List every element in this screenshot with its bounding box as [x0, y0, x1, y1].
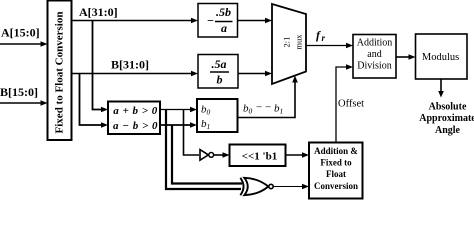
block Modulus: [416, 34, 468, 79]
svg-text:Fixed to: Fixed to: [320, 158, 352, 168]
svg-text:Addition &: Addition &: [314, 146, 358, 156]
svg-text:Modulus: Modulus: [422, 52, 459, 63]
svg-text:2:1: 2:1: [282, 37, 292, 48]
wire input A: [0, 41, 48, 47]
block multiplier .5a/b: [198, 55, 238, 89]
wire mux out fr: [306, 43, 353, 49]
wire comparator out b0: [160, 107, 197, 113]
block Addition and Division: [353, 35, 396, 79]
svg-text:<<1 'b1: <<1 'b1: [242, 151, 277, 163]
svg-text:Float: Float: [326, 169, 346, 179]
block U1 Fixed to Float Conversion: [48, 1, 72, 141]
svg-text:B[15:0]: B[15:0]: [0, 85, 38, 99]
wire not gate to shifter: [214, 152, 230, 158]
svg-text:.5a: .5a: [212, 57, 227, 71]
svg-text:Offset: Offset: [338, 99, 364, 110]
svg-text:.5b: .5b: [216, 5, 231, 19]
svg-text:B[31:0]: B[31:0]: [111, 58, 149, 72]
block shifter <<1'b1: [230, 145, 286, 167]
wire box1 to mux: [238, 18, 273, 24]
wire branch B to comparator: [80, 74, 109, 128]
svg-text:Addition: Addition: [357, 38, 393, 49]
svg-text:and: and: [367, 49, 381, 60]
svg-text:A[15:0]: A[15:0]: [1, 26, 40, 40]
block register b0 b1: [197, 99, 238, 132]
svg-text:Angle: Angle: [435, 125, 461, 136]
mux 2:1: [272, 4, 306, 84]
wire offset: [336, 64, 353, 142]
wire box2 to mux: [238, 71, 272, 77]
wire adddiv to modulus: [396, 54, 416, 60]
svg-text:−: −: [207, 14, 214, 28]
block comparator a+b>0 / a-b>0: [108, 102, 160, 135]
wire xnor to addfix: [274, 184, 310, 190]
svg-text:Approximate: Approximate: [419, 113, 474, 124]
wire drop b1 to xnor upper: [172, 125, 242, 184]
svg-text:mux: mux: [294, 34, 304, 50]
wire comparator out b1: [160, 122, 197, 128]
svg-text:a − b > 0: a − b > 0: [113, 120, 158, 132]
wire mux select: [238, 76, 298, 118]
svg-text:Division: Division: [357, 61, 391, 72]
svg-text:Fixed to Float Conversion: Fixed to Float Conversion: [54, 12, 66, 134]
not gate: [200, 150, 214, 161]
svg-text:Conversion: Conversion: [314, 181, 358, 191]
svg-text:b: b: [217, 73, 223, 87]
block multiplier -.5b/a: [198, 4, 238, 38]
wire shifter to addfix: [286, 152, 310, 158]
wire B[31:0]: [72, 71, 199, 77]
block addfix Addition & Fixed to Float Conversion: [309, 143, 363, 199]
svg-text:a: a: [221, 21, 227, 35]
wire drop b0 to xnor lower: [166, 110, 241, 190]
wire branch A to comparator: [93, 21, 109, 113]
wire modulus output down: [438, 79, 444, 98]
wire drop b0 to not gate: [184, 110, 200, 156]
svg-text:Absolute: Absolute: [429, 102, 467, 113]
svg-text:A[31:0]: A[31:0]: [79, 5, 118, 19]
wire A[31:0]: [72, 18, 199, 24]
wire input B: [0, 100, 48, 106]
svg-text:− −: − −: [256, 102, 271, 114]
svg-text:a + b > 0: a + b > 0: [113, 105, 158, 117]
xnor gate: [240, 178, 273, 195]
output label Absolute Approximate Angle: [419, 102, 474, 137]
